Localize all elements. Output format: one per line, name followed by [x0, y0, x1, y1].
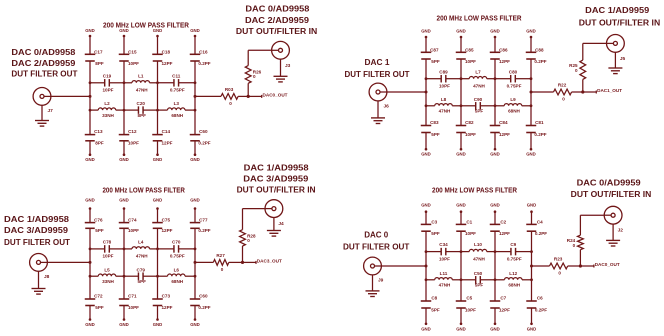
node column N4 vertical wire — [194, 209, 196, 223]
svg-text:10PF: 10PF — [465, 231, 476, 236]
svg-text:GND: GND — [456, 152, 466, 157]
svg-text:GND: GND — [456, 327, 466, 332]
ground for J3 — [280, 59, 282, 76]
svg-text:C50: C50 — [474, 271, 483, 276]
wire junction up to resistor R25 — [582, 79, 584, 92]
svg-text:J9: J9 — [378, 278, 384, 284]
svg-text:C1: C1 — [466, 220, 472, 225]
svg-text:C5: C5 — [466, 296, 472, 301]
svg-text:5PF: 5PF — [95, 228, 104, 233]
svg-text:33NH: 33NH — [102, 279, 114, 284]
capacitor C85 10PF (shunt, top) — [456, 51, 467, 53]
wire node N4 to resistor R23 — [532, 265, 550, 267]
node column N1 vertical wire — [425, 37, 427, 52]
svg-text:L9: L9 — [510, 97, 516, 102]
svg-text:R22: R22 — [558, 82, 567, 87]
svg-text:12PF: 12PF — [162, 141, 173, 146]
svg-text:0: 0 — [573, 243, 576, 248]
svg-text:0.2PF: 0.2PF — [198, 228, 210, 233]
capacitor C71 10PF (shunt, bottom) — [119, 298, 130, 300]
wire node N4 to resistor R03 — [195, 95, 221, 97]
connector J7 (input BNC) — [33, 88, 51, 106]
inductor L9 68NH (series, lower) — [495, 105, 504, 107]
svg-text:47NH: 47NH — [136, 88, 148, 93]
svg-text:10PF: 10PF — [465, 308, 476, 313]
capacitor C6 0.2PF (shunt, bottom) — [526, 300, 537, 302]
svg-text:C81: C81 — [535, 120, 544, 125]
resistor R28 0 (to output connector) — [240, 230, 246, 246]
wire resistor to output junction — [568, 265, 581, 267]
node column N3 vertical wire — [157, 36, 159, 54]
svg-text:J4: J4 — [278, 221, 284, 227]
capacitor C18 12PF (shunt, top) — [152, 53, 163, 55]
capacitor C19 10PF (series, upper) — [90, 82, 105, 84]
svg-text:GND: GND — [527, 327, 537, 332]
svg-text:C90: C90 — [474, 97, 483, 102]
svg-text:GND: GND — [490, 327, 500, 332]
node column N2 vertical wire — [460, 212, 462, 225]
node column N2 vertical wire — [123, 209, 125, 223]
svg-text:L4: L4 — [138, 240, 144, 245]
svg-text:47NH: 47NH — [473, 83, 485, 88]
inductor L4 47NH (series, upper) — [124, 248, 132, 250]
svg-text:L7: L7 — [475, 69, 481, 74]
svg-text:8PF: 8PF — [138, 113, 147, 118]
svg-text:GND: GND — [490, 203, 500, 208]
wire input connector to node N1 — [381, 265, 426, 267]
svg-text:0.75PF: 0.75PF — [507, 83, 522, 88]
capacitor C12 10PF (shunt, bottom) — [119, 134, 130, 136]
capacitor C11 0.75PF (series, upper) — [158, 82, 174, 84]
svg-text:L8: L8 — [441, 97, 447, 102]
svg-text:10PF: 10PF — [128, 141, 139, 146]
svg-text:DAC 1/AD9958: DAC 1/AD9958 — [244, 163, 309, 173]
wire junction up to resistor R28 — [242, 246, 244, 262]
svg-text:C11: C11 — [172, 73, 181, 78]
node column N3 vertical wire — [494, 212, 496, 225]
node column N2 vertical wire — [460, 37, 462, 52]
svg-text:R23: R23 — [554, 256, 563, 261]
svg-text:12PF: 12PF — [162, 61, 173, 66]
inductor L11 47NH (series, lower) — [426, 279, 435, 281]
node column N4 vertical wire — [194, 36, 196, 54]
capacitor C88 0.2PF (shunt, top) — [526, 51, 537, 53]
wire node N4 to resistor R22 — [531, 91, 554, 93]
svg-text:DUT FILTER OUT: DUT FILTER OUT — [11, 69, 78, 79]
resistor R22 0 (series output) — [554, 89, 572, 95]
capacitor C90 5PF (series, lower) — [461, 105, 476, 107]
capacitor C70 0.75PF (series, upper) — [158, 248, 174, 250]
capacitor C5 10PF (shunt, bottom) — [456, 300, 467, 302]
svg-text:GND: GND — [85, 157, 95, 162]
svg-text:200 MHz LOW PASS FILTER: 200 MHz LOW PASS FILTER — [102, 186, 185, 195]
svg-text:C89: C89 — [439, 69, 448, 74]
svg-text:GND: GND — [119, 198, 129, 203]
connector J6 (input BNC) — [369, 83, 387, 101]
inductor L12 68NH (series, lower) — [495, 279, 505, 281]
capacitor C84 12PF (shunt, bottom) — [490, 125, 501, 127]
svg-text:GND: GND — [527, 203, 537, 208]
svg-text:0: 0 — [575, 68, 578, 73]
svg-text:68NH: 68NH — [171, 279, 183, 284]
svg-text:R03: R03 — [225, 87, 234, 92]
capacitor C60 0.2PF (shunt, bottom) — [190, 298, 201, 300]
wire resistor up and over to output connector — [247, 50, 249, 65]
svg-text:C20: C20 — [137, 101, 146, 106]
svg-text:0.2PF: 0.2PF — [198, 141, 210, 146]
svg-text:C75: C75 — [162, 218, 171, 223]
svg-text:GND: GND — [490, 29, 500, 34]
svg-text:C79: C79 — [137, 267, 146, 272]
ground for J5 — [614, 52, 616, 68]
svg-text:C71: C71 — [128, 294, 137, 299]
wire input connector to node N1 — [387, 91, 426, 93]
svg-text:C3: C3 — [431, 220, 437, 225]
svg-text:47NH: 47NH — [439, 283, 451, 288]
svg-text:C14: C14 — [162, 129, 171, 134]
output junction node — [241, 261, 244, 264]
capacitor C1 10PF (shunt, top) — [456, 223, 467, 225]
svg-text:DAC3_OUT: DAC3_OUT — [257, 258, 282, 264]
svg-text:DAC1_OUT: DAC1_OUT — [597, 88, 622, 94]
svg-text:C9: C9 — [510, 242, 516, 247]
svg-text:DAC0_OUT: DAC0_OUT — [263, 92, 288, 98]
svg-text:GND: GND — [190, 157, 200, 162]
svg-text:10PF: 10PF — [439, 83, 450, 88]
capacitor C82 10PF (shunt, bottom) — [456, 125, 467, 127]
svg-text:GND: GND — [119, 322, 129, 327]
svg-text:L10: L10 — [474, 242, 482, 247]
inductor L3 68NH (series, lower) — [158, 109, 168, 111]
svg-text:C34: C34 — [439, 242, 448, 247]
net label DAC0_OUT — [248, 95, 262, 97]
ground for J6 — [377, 101, 379, 118]
capacitor C8 5PF (shunt, bottom) — [421, 300, 432, 302]
svg-text:GND: GND — [490, 152, 500, 157]
connector J9 (input BNC) — [364, 257, 382, 275]
capacitor C7 12PF (shunt, bottom) — [490, 300, 501, 302]
svg-text:C76: C76 — [94, 218, 103, 223]
svg-text:L1: L1 — [138, 73, 144, 78]
svg-text:DAC 3/AD9959: DAC 3/AD9959 — [4, 225, 68, 235]
svg-text:DAC 0/AD9958: DAC 0/AD9958 — [245, 3, 309, 13]
svg-text:5PF: 5PF — [431, 308, 440, 313]
svg-text:C80: C80 — [509, 69, 518, 74]
svg-text:5PF: 5PF — [431, 59, 440, 64]
wire resistor up and over to output connector — [242, 209, 244, 230]
svg-text:GND: GND — [421, 29, 431, 34]
svg-text:DAC 0: DAC 0 — [364, 229, 388, 239]
capacitor C74 10PF (shunt, top) — [119, 222, 130, 224]
output junction node — [579, 264, 582, 267]
svg-text:0.75PF: 0.75PF — [507, 256, 522, 261]
svg-text:C60: C60 — [199, 129, 208, 134]
inductor L2 33NH (series, lower) — [90, 109, 98, 111]
svg-text:R27: R27 — [216, 253, 225, 258]
node column N4 vertical wire — [530, 37, 532, 52]
svg-text:DAC 1/AD9958: DAC 1/AD9958 — [4, 214, 69, 224]
svg-text:C88: C88 — [535, 47, 544, 52]
resistor R23 0 (series output) — [550, 263, 568, 269]
svg-text:DUT OUT/FILTER IN: DUT OUT/FILTER IN — [571, 189, 652, 199]
svg-text:C85: C85 — [465, 47, 474, 52]
svg-text:C72: C72 — [94, 294, 103, 299]
svg-text:200 MHz LOW PASS FILTER: 200 MHz LOW PASS FILTER — [437, 14, 523, 23]
wire junction up to resistor R24 — [579, 250, 581, 266]
svg-text:47NH: 47NH — [439, 109, 451, 114]
capacitor C75 12PF (shunt, top) — [152, 222, 163, 224]
connector J2 (output BNC) — [604, 206, 622, 224]
node column N1 vertical wire — [89, 209, 91, 223]
svg-text:DAC 2/AD9959: DAC 2/AD9959 — [11, 58, 75, 68]
svg-text:J5: J5 — [620, 56, 626, 62]
svg-text:8PF: 8PF — [95, 61, 104, 66]
svg-text:DUT OUT/FILTER IN: DUT OUT/FILTER IN — [579, 18, 660, 28]
node column N3 vertical wire — [157, 209, 159, 223]
svg-text:0: 0 — [253, 74, 256, 79]
svg-text:C12: C12 — [128, 129, 137, 134]
capacitor C78 10PF (series, upper) — [90, 248, 105, 250]
svg-text:10PF: 10PF — [128, 305, 139, 310]
svg-text:L5: L5 — [104, 267, 110, 272]
wire resistor to output junction — [238, 95, 248, 97]
svg-text:DUT OUT/FILTER IN: DUT OUT/FILTER IN — [236, 26, 317, 36]
svg-text:C2: C2 — [500, 220, 506, 225]
svg-text:J7: J7 — [48, 108, 54, 114]
connector J3 (output BNC) — [272, 41, 290, 59]
svg-text:GND: GND — [456, 203, 466, 208]
svg-text:L12: L12 — [509, 271, 517, 276]
svg-text:0: 0 — [558, 271, 561, 276]
svg-text:C15: C15 — [128, 49, 137, 54]
capacitor C81 0.2PF (shunt, bottom) — [526, 125, 537, 127]
svg-text:C77: C77 — [199, 218, 208, 223]
svg-text:200 MHz LOW PASS FILTER: 200 MHz LOW PASS FILTER — [432, 186, 518, 195]
capacitor C17 8PF (shunt, top) — [85, 53, 96, 55]
svg-text:200 MHz LOW PASS FILTER: 200 MHz LOW PASS FILTER — [103, 21, 190, 30]
svg-text:C13: C13 — [94, 129, 103, 134]
svg-text:12PF: 12PF — [162, 228, 173, 233]
svg-text:0.75PF: 0.75PF — [170, 88, 185, 93]
svg-text:C17: C17 — [94, 49, 103, 54]
connector J5 (output BNC) — [607, 35, 625, 53]
svg-text:47NH: 47NH — [136, 254, 148, 259]
svg-text:GND: GND — [190, 322, 200, 327]
svg-text:33NH: 33NH — [102, 113, 114, 118]
svg-text:L2: L2 — [104, 101, 110, 106]
capacitor C14 12PF (shunt, bottom) — [152, 134, 163, 136]
svg-text:J6: J6 — [384, 104, 390, 110]
svg-text:C6: C6 — [537, 296, 543, 301]
svg-text:0.2PF: 0.2PF — [534, 132, 546, 137]
svg-text:GND: GND — [190, 198, 200, 203]
capacitor C79 5PF (series, lower) — [124, 275, 138, 277]
wire resistor to output junction — [229, 261, 243, 263]
svg-text:L3: L3 — [174, 101, 180, 106]
capacitor C9 0.75PF (series, upper) — [495, 251, 511, 253]
capacitor C15 10PF (shunt, top) — [119, 53, 130, 55]
svg-text:GND: GND — [153, 157, 163, 162]
svg-text:68NH: 68NH — [508, 109, 520, 114]
svg-text:68NH: 68NH — [171, 113, 183, 118]
svg-text:GND: GND — [421, 327, 431, 332]
svg-text:5PF: 5PF — [475, 283, 484, 288]
svg-text:GND: GND — [421, 203, 431, 208]
wire resistor up and over to output connector — [579, 215, 581, 235]
svg-text:0.2PF: 0.2PF — [534, 59, 546, 64]
svg-text:DAC 2/AD9959: DAC 2/AD9959 — [245, 15, 309, 25]
svg-text:DUT FILTER OUT: DUT FILTER OUT — [4, 237, 71, 247]
svg-text:0.2PF: 0.2PF — [535, 231, 547, 236]
svg-text:L6: L6 — [174, 267, 180, 272]
svg-text:C19: C19 — [103, 73, 112, 78]
svg-text:5PF: 5PF — [431, 231, 440, 236]
capacitor C13 8PF (shunt, bottom) — [85, 134, 96, 136]
svg-text:DAC 1/AD9959: DAC 1/AD9959 — [585, 5, 649, 15]
svg-text:C87: C87 — [430, 47, 439, 52]
svg-text:10PF: 10PF — [103, 88, 114, 93]
svg-text:C4: C4 — [537, 220, 543, 225]
inductor L5 33NH (series, lower) — [90, 275, 98, 277]
capacitor C34 10PF (series, upper) — [426, 251, 441, 253]
svg-text:C16: C16 — [199, 49, 208, 54]
capacitor C50 5PF (series, lower) — [461, 279, 476, 281]
svg-text:C60: C60 — [199, 294, 208, 299]
svg-text:GND: GND — [190, 28, 200, 33]
svg-text:5PF: 5PF — [475, 109, 484, 114]
svg-text:10PF: 10PF — [439, 256, 450, 261]
svg-text:0: 0 — [562, 97, 565, 102]
svg-text:47NH: 47NH — [473, 256, 485, 261]
svg-text:GND: GND — [153, 322, 163, 327]
svg-text:GND: GND — [456, 29, 466, 34]
resistor R26 0 (to output connector) — [245, 66, 251, 84]
svg-text:DAC0_OUT: DAC0_OUT — [595, 262, 620, 268]
node column N1 vertical wire — [89, 36, 91, 54]
node column N3 vertical wire — [494, 37, 496, 52]
capacitor C4 0.2PF (shunt, top) — [526, 223, 537, 225]
svg-text:5PF: 5PF — [431, 132, 440, 137]
svg-text:0: 0 — [221, 267, 224, 272]
svg-text:0.75PF: 0.75PF — [170, 254, 185, 259]
svg-text:L11: L11 — [440, 271, 448, 276]
svg-text:C82: C82 — [465, 120, 474, 125]
svg-text:8PF: 8PF — [95, 141, 104, 146]
svg-text:5PF: 5PF — [138, 279, 147, 284]
resistor R03 0 (series output) — [221, 94, 238, 100]
capacitor C86 12PF (shunt, top) — [490, 51, 501, 53]
svg-text:DUT FILTER OUT: DUT FILTER OUT — [345, 69, 411, 79]
svg-text:DAC 3/AD9959: DAC 3/AD9959 — [243, 174, 308, 184]
svg-text:DUT FILTER OUT: DUT FILTER OUT — [343, 241, 410, 251]
inductor L8 47NH (series, lower) — [426, 105, 435, 107]
svg-text:0: 0 — [229, 101, 232, 106]
svg-text:GND: GND — [153, 28, 163, 33]
svg-text:0.2PF: 0.2PF — [198, 305, 210, 310]
svg-text:10PF: 10PF — [465, 59, 476, 64]
svg-text:DAC 1: DAC 1 — [365, 57, 390, 67]
net label DAC3_OUT — [243, 261, 257, 263]
svg-text:68NH: 68NH — [508, 283, 520, 288]
svg-text:DAC 0/AD9959: DAC 0/AD9959 — [577, 178, 641, 188]
node column N4 vertical wire — [531, 212, 533, 225]
svg-text:GND: GND — [85, 28, 95, 33]
capacitor C80 0.75PF (series, upper) — [495, 78, 511, 80]
wire node N4 to resistor R27 — [195, 261, 213, 263]
svg-text:10PF: 10PF — [128, 228, 139, 233]
inductor L7 47NH (series, upper) — [461, 78, 469, 80]
svg-text:C70: C70 — [172, 240, 181, 245]
connector J8 (input BNC) — [30, 254, 48, 272]
capacitor C20 8PF (series, lower) — [124, 109, 138, 111]
resistor R24 0 (to output connector) — [578, 235, 584, 250]
ground for J7 — [41, 105, 43, 120]
svg-text:12PF: 12PF — [499, 132, 510, 137]
inductor L1 47NH (series, upper) — [124, 82, 132, 84]
svg-text:10PF: 10PF — [465, 132, 476, 137]
svg-text:10PF: 10PF — [103, 254, 114, 259]
svg-text:DAC 0/AD9958: DAC 0/AD9958 — [11, 47, 75, 57]
svg-text:0.2PF: 0.2PF — [198, 61, 210, 66]
svg-text:GND: GND — [85, 198, 95, 203]
svg-text:C18: C18 — [162, 49, 171, 54]
svg-text:GND: GND — [119, 157, 129, 162]
output junction node — [581, 90, 584, 93]
svg-text:GND: GND — [526, 29, 536, 34]
svg-text:J3: J3 — [285, 63, 291, 69]
net label DAC1_OUT — [583, 91, 597, 93]
svg-text:C7: C7 — [500, 296, 506, 301]
resistor R25 0 (to output connector) — [580, 60, 586, 79]
output junction node — [247, 95, 250, 98]
node column N2 vertical wire — [123, 36, 125, 54]
svg-text:12PF: 12PF — [499, 59, 510, 64]
inductor L6 68NH (series, lower) — [158, 275, 168, 277]
svg-text:GND: GND — [153, 198, 163, 203]
ground for J2 — [612, 224, 614, 240]
svg-text:GND: GND — [526, 152, 536, 157]
inductor L10 47NH (series, upper) — [461, 251, 469, 253]
svg-text:12PF: 12PF — [499, 308, 510, 313]
net label DAC0_OUT — [580, 265, 594, 267]
svg-text:C8: C8 — [431, 296, 437, 301]
svg-text:GND: GND — [421, 152, 431, 157]
capacitor C89 10PF (series, upper) — [426, 78, 441, 80]
wire input connector to node N1 — [51, 95, 90, 97]
wire junction up to resistor R26 — [247, 83, 249, 96]
wire resistor up and over to output connector — [582, 43, 584, 60]
svg-text:DUT OUT/FILTER IN: DUT OUT/FILTER IN — [237, 185, 316, 195]
capacitor C72 5PF (shunt, bottom) — [85, 298, 96, 300]
svg-text:C86: C86 — [499, 47, 508, 52]
capacitor C3 5PF (shunt, top) — [421, 223, 432, 225]
svg-text:C84: C84 — [499, 120, 508, 125]
svg-text:C73: C73 — [162, 294, 171, 299]
capacitor C83 5PF (shunt, bottom) — [421, 125, 432, 127]
svg-text:J2: J2 — [618, 228, 624, 234]
connector J4 (output BNC) — [265, 200, 283, 218]
svg-text:12PF: 12PF — [162, 305, 173, 310]
svg-text:12PF: 12PF — [499, 231, 510, 236]
svg-text:C83: C83 — [430, 120, 439, 125]
svg-text:0: 0 — [247, 238, 250, 243]
svg-text:GND: GND — [119, 28, 129, 33]
capacitor C2 12PF (shunt, top) — [490, 223, 501, 225]
svg-text:0.2PF: 0.2PF — [535, 308, 547, 313]
node column N1 vertical wire — [425, 212, 427, 225]
ground for J8 — [38, 271, 40, 288]
ground for J9 — [372, 275, 374, 291]
